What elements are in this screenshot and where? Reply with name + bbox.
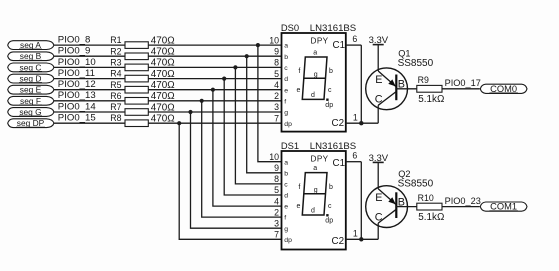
svg-text:4: 4 [274,196,279,206]
svg-text:6: 6 [352,34,357,44]
svg-text:4: 4 [274,80,279,90]
svg-text:2: 2 [274,207,279,217]
svg-text:8: 8 [274,58,279,68]
svg-text:LN3161BS: LN3161BS [310,141,356,152]
svg-text:9: 9 [274,163,279,173]
svg-text:C2: C2 [332,236,345,247]
svg-text:E: E [375,192,382,204]
svg-text:d: d [311,207,315,214]
svg-text:a: a [313,165,317,172]
svg-text:f: f [284,98,286,105]
svg-text:5: 5 [274,185,279,195]
svg-text:a: a [313,49,317,56]
svg-text:c: c [328,87,332,94]
svg-text:6: 6 [352,151,357,161]
junction row seg C [233,65,237,69]
junction row seg G [188,110,192,114]
resistor R1 470&#937; [110,35,174,48]
DS1 pin 8 (c) [274,174,288,188]
svg-text:b: b [329,68,333,75]
DS1 seven-segment digit [297,165,334,224]
wire C1 to C2 net [360,162,362,240]
svg-text:e: e [284,204,288,211]
svg-text:10: 10 [269,152,279,162]
resistor R7 470&#937; [110,102,174,115]
port seg E [8,85,54,95]
svg-text:470Ω: 470Ω [151,35,175,46]
wire R1 to DS0 pin 10 [148,44,281,46]
svg-text:9: 9 [274,47,279,57]
wire C1 to C2 net [360,45,362,123]
resistor R6 470&#937; [110,91,174,104]
wire seg F to DS1 pin 2 [202,101,282,217]
svg-text:seg DP: seg DP [17,118,45,128]
DS0 pin 8 (c) [274,58,288,72]
svg-text:3: 3 [274,102,279,112]
svg-text:c: c [328,203,332,210]
resistor R9 5.1k&#937; [417,75,445,105]
svg-text:seg G: seg G [19,107,41,117]
svg-text:C2: C2 [332,118,345,129]
7-segment display DS1 LN3161BS [282,151,346,250]
DS1 pin 5 (d) [274,185,288,199]
junction row seg B [245,54,249,58]
svg-text:e: e [297,203,301,210]
7-segment display DS0 LN3161BS [282,33,346,132]
wire R10 to COM1 [442,206,480,208]
wire collector to C2 [377,223,379,239]
wire seg E to DS1 pin 4 [213,90,282,206]
wire seg F to R6 [54,100,125,102]
svg-text:PIO0_12: PIO0_12 [58,79,96,90]
wire R9 to COM0 [442,88,480,90]
junction row seg E [211,88,215,92]
DS0 pin 7 (dp) [274,113,292,127]
resistor R5 470&#937; [110,80,174,93]
svg-text:b: b [284,170,288,177]
wire seg D to DS1 pin 5 [224,79,281,195]
resistor R8 470&#937; [110,113,174,126]
svg-text:R3: R3 [110,58,121,68]
svg-text:DPY: DPY [311,155,329,164]
svg-text:R1: R1 [110,35,121,45]
wire R5 to DS0 pin 4 [148,89,281,91]
svg-text:DPY: DPY [311,37,329,46]
wire seg D to R4 [54,78,125,80]
wire R3 to DS0 pin 8 [148,66,281,68]
svg-text:C1: C1 [333,40,346,51]
svg-text:C: C [375,94,383,106]
wire seg B to DS1 pin 9 [247,56,282,173]
svg-text:b: b [329,184,333,191]
svg-text:seg E: seg E [20,85,42,95]
DS1 pin 7 (dp) [274,230,292,244]
svg-text:C1: C1 [333,158,346,169]
svg-text:d: d [284,76,288,83]
svg-text:f: f [298,184,300,191]
svg-text:R6: R6 [110,91,121,101]
wire seg B to R2 [54,55,125,57]
svg-text:3: 3 [274,218,279,228]
svg-text:dp: dp [284,237,292,244]
svg-text:PIO0_10: PIO0_10 [58,57,96,68]
svg-text:c: c [284,65,288,72]
svg-text:SS8550: SS8550 [398,179,434,190]
DS0 seven-segment digit [297,49,334,108]
svg-text:dp: dp [284,121,292,128]
svg-text:d: d [311,92,315,99]
svg-text:seg D: seg D [20,74,42,84]
svg-text:470Ω: 470Ω [151,91,175,102]
wire R6 to DS0 pin 2 [148,100,281,102]
resistor R10 5.1k&#937; [417,193,445,223]
svg-text:470Ω: 470Ω [151,47,175,58]
svg-text:g: g [284,226,288,233]
svg-text:7: 7 [274,113,279,123]
svg-text:g: g [314,187,318,194]
port seg D [8,74,54,84]
DS0 pin 10 (a) [269,35,288,49]
DS0 pin 9 (b) [274,47,288,61]
svg-text:PIO0_17: PIO0_17 [445,78,481,88]
svg-text:a: a [284,43,288,50]
resistor R4 470&#937; [110,69,174,82]
wire seg G to DS1 pin 3 [191,112,282,228]
svg-text:2: 2 [274,91,279,101]
DS1 pin 9 (b) [274,163,288,177]
junction C1/C2/collector [359,237,363,241]
wire DS0 pin 1 (C2) [346,113,378,124]
svg-text:g: g [314,72,318,79]
junction row seg D [222,77,226,81]
svg-text:5: 5 [274,69,279,79]
svg-text:DS0: DS0 [281,22,299,33]
svg-text:PIO0_23: PIO0_23 [445,196,481,206]
svg-text:C: C [375,211,383,223]
transistor Q2 SS8550 (PNP) [366,169,434,228]
svg-text:Q1: Q1 [398,48,410,58]
svg-text:Q2: Q2 [398,169,410,179]
svg-text:LN3161BS: LN3161BS [310,23,356,34]
svg-text:f: f [284,215,286,222]
wire seg G to R7 [54,111,125,113]
DS1 pin 10 (a) [269,152,288,166]
wire DS0 pin 6 (C1) [346,34,362,45]
svg-text:R10: R10 [418,193,434,203]
svg-text:f: f [298,68,300,75]
DS0 pin 3 (g) [274,102,288,116]
svg-text:seg A: seg A [20,40,41,50]
svg-text:seg F: seg F [20,96,41,106]
svg-text:470Ω: 470Ω [151,69,175,80]
wire R8 to DS0 pin 7 [148,122,281,124]
svg-text:R8: R8 [110,113,121,123]
svg-text:470Ω: 470Ω [151,114,175,125]
DS1 pin 4 (e) [274,196,288,210]
svg-text:COM0: COM0 [490,84,517,94]
svg-text:R7: R7 [110,102,121,112]
wire seg C to R3 [54,66,125,68]
svg-text:1: 1 [353,113,358,123]
svg-text:dp: dp [325,217,333,224]
DS1 pin 3 (g) [274,218,288,232]
wire R4 to DS0 pin 5 [148,78,281,80]
wire seg A to DS1 pin 10 [258,45,282,162]
port seg B [8,51,54,61]
wire seg A to R1 [54,44,125,46]
junction row seg F [200,99,204,103]
svg-text:c: c [284,182,288,189]
svg-text:10: 10 [269,35,279,45]
junction row seg A [256,43,260,47]
svg-text:DS1: DS1 [281,140,299,151]
wire collector to C2 [377,105,379,123]
transistor Q1 SS8550 (PNP) [366,48,434,109]
svg-text:1: 1 [353,229,358,239]
port seg A [8,40,54,50]
svg-text:R9: R9 [418,75,429,85]
wire seg C to DS1 pin 8 [235,67,281,183]
wire seg DP to DS1 pin 7 [179,123,281,239]
wire DS1 pin 6 (C1) [346,151,362,162]
port seg C [8,62,54,72]
svg-text:COM1: COM1 [490,202,517,212]
resistor R3 470&#937; [110,58,174,71]
junction row seg DP [177,121,181,125]
svg-text:7: 7 [274,230,279,240]
svg-text:5.1kΩ: 5.1kΩ [418,212,444,223]
DS0 pin 4 (e) [274,80,288,94]
svg-text:b: b [284,54,288,61]
power 3.3V [369,35,389,71]
wire R7 to DS0 pin 3 [148,111,281,113]
port seg G [8,107,54,117]
wire base to R10 [396,206,417,208]
svg-text:470Ω: 470Ω [151,80,175,91]
svg-text:PIO0_11: PIO0_11 [58,68,95,79]
junction C1/C2/collector [359,121,363,125]
svg-text:470Ω: 470Ω [151,102,175,113]
svg-text:d: d [284,193,288,200]
resistor R2 470&#937; [110,46,174,59]
svg-text:PIO0_8: PIO0_8 [58,35,91,46]
svg-text:8: 8 [274,174,279,184]
svg-text:R2: R2 [110,46,121,56]
svg-text:e: e [284,87,288,94]
wire seg E to R5 [54,89,125,91]
svg-text:PIO0_13: PIO0_13 [58,90,96,101]
wire seg DP to R8 [54,122,125,124]
svg-text:SS8550: SS8550 [398,58,434,69]
DS1 pin 2 (f) [274,207,286,221]
port COM0 [480,84,527,94]
wire DS1 pin 1 (C2) [346,229,378,240]
port seg F [8,96,54,106]
svg-text:seg C: seg C [20,62,42,72]
svg-text:dp: dp [325,102,333,109]
svg-text:PIO0_15: PIO0_15 [58,113,96,124]
svg-text:PIO0_14: PIO0_14 [58,101,97,112]
svg-text:470Ω: 470Ω [151,58,175,69]
DS0 pin 5 (d) [274,69,288,83]
port COM1 [480,202,527,212]
svg-text:5.1kΩ: 5.1kΩ [418,94,444,105]
svg-text:e: e [297,87,301,94]
power 3.3V [369,153,389,189]
svg-text:a: a [284,159,288,166]
svg-text:E: E [375,74,382,86]
svg-text:seg B: seg B [20,51,42,61]
svg-text:R5: R5 [110,80,121,90]
svg-text:PIO0_9: PIO0_9 [58,46,91,57]
wire R2 to DS0 pin 9 [148,55,281,57]
DS0 pin 2 (f) [274,91,286,105]
svg-text:g: g [284,110,288,117]
port seg DP [8,118,54,128]
wire base to R9 [396,88,417,90]
svg-text:R4: R4 [110,69,121,79]
